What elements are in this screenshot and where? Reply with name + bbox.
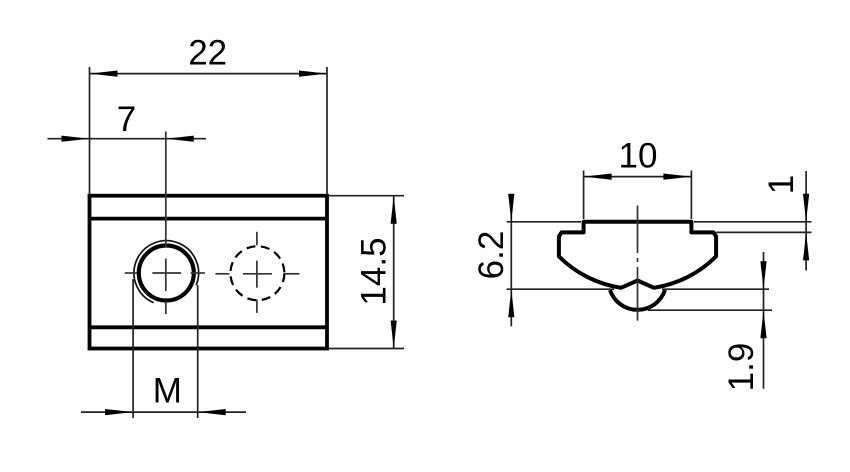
svg-text:1.9: 1.9 <box>722 343 761 392</box>
svg-text:6.2: 6.2 <box>472 231 511 280</box>
svg-text:M: M <box>153 372 182 411</box>
svg-text:7: 7 <box>117 100 136 139</box>
svg-text:10: 10 <box>619 137 658 176</box>
svg-text:22: 22 <box>188 34 227 73</box>
svg-text:14.5: 14.5 <box>355 237 394 305</box>
svg-text:1: 1 <box>762 175 801 194</box>
